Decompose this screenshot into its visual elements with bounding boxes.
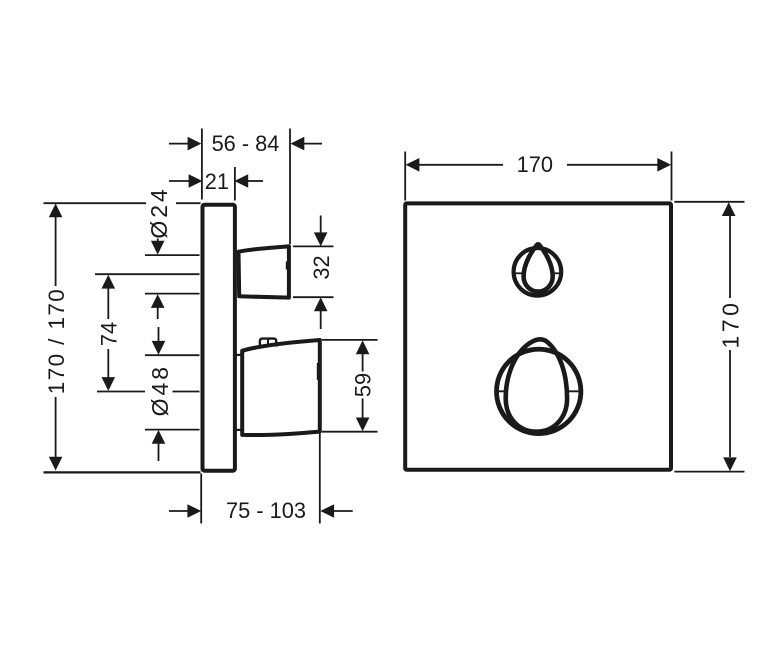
front view upper knob left mid tick	[515, 272, 524, 274]
extension line 75-103 right	[319, 434, 321, 524]
dimension 32 top stem	[320, 216, 322, 234]
front view lower knob egg grip	[506, 339, 567, 431]
arrow 59 up	[356, 340, 370, 354]
dimension 170 right top stem	[729, 216, 731, 298]
svg-text:75 - 103: 75 - 103	[226, 498, 306, 523]
extension line 170 top left	[404, 152, 406, 201]
lower handle stub bottom line	[237, 429, 243, 431]
svg-text:170: 170	[517, 152, 553, 177]
extension line diam24 top	[145, 254, 200, 256]
front view lower knob outer circle	[497, 349, 581, 433]
svg-text:32: 32	[309, 255, 334, 279]
dimension 56-84 right stem	[304, 143, 322, 145]
dimension 170 right bottom stem	[729, 350, 731, 457]
front view upper knob right mid tick	[553, 272, 561, 274]
dimension 170/170 top stem	[55, 217, 57, 286]
safety button divider	[267, 339, 269, 347]
dimension diam48 top stem	[158, 327, 160, 342]
upper handle front inner line	[286, 262, 288, 270]
front view upper knob egg grip	[524, 244, 553, 291]
extension line upper handle centerline	[95, 273, 200, 275]
arrow diam24 down	[151, 241, 165, 255]
arrow 32 up	[314, 297, 328, 311]
arrow 170 top left	[406, 158, 420, 172]
extension line bottom-left horizontal	[44, 471, 201, 473]
arrow 75-103 left	[187, 504, 201, 518]
arrow 74 down	[102, 377, 116, 391]
arrow 170/170 down	[49, 457, 63, 471]
svg-text:170 / 170: 170 / 170	[44, 288, 69, 394]
lower handle stub top line	[237, 354, 243, 356]
upper handle (side view)	[239, 246, 289, 297]
arrow 75-103 right	[320, 504, 334, 518]
extension line 75-103 left	[200, 474, 202, 524]
extension line 170 right top	[674, 201, 744, 203]
arrow 21 right	[234, 174, 248, 188]
extension line 56-84 left	[201, 129, 203, 200]
extension line 32 bottom	[293, 296, 334, 298]
svg-text:74: 74	[97, 322, 122, 346]
svg-text:21: 21	[205, 169, 229, 194]
extension line lower handle centerline	[97, 391, 145, 393]
arrow 59 down	[356, 418, 370, 432]
arrow diam48 down	[152, 341, 166, 355]
extension line diam48 top	[145, 354, 200, 356]
arrow 170 right up	[722, 202, 736, 216]
dimension diam24 bottom stem	[157, 307, 159, 319]
safety button tab	[260, 339, 276, 348]
svg-text:59: 59	[350, 373, 375, 397]
dimension 59 bottom stem	[362, 399, 364, 418]
extension line 59 bottom	[322, 431, 378, 433]
dimension 170/170 bottom stem	[55, 397, 57, 457]
extension line 56-84 right	[289, 129, 291, 245]
lower handle (side view)	[242, 340, 320, 435]
front view upper knob outer circle	[514, 248, 562, 296]
extension line top-left horizontal	[44, 202, 147, 204]
arrow 32 down	[314, 232, 328, 246]
arrow 74 up	[102, 275, 116, 289]
dimension 74 top stem	[107, 288, 109, 319]
arrow 21 left	[189, 174, 203, 188]
svg-text:170: 170	[717, 300, 743, 349]
dimension 74 bottom stem	[107, 349, 109, 378]
extension line 21 right	[234, 167, 236, 201]
arrow 56-84 left	[188, 137, 202, 151]
arrow 170 top right	[657, 158, 671, 172]
svg-text:Ø48: Ø48	[147, 364, 173, 416]
extension line 170 right bottom	[674, 471, 744, 473]
front view lower knob right mid tick	[568, 390, 583, 392]
lower handle front inner line	[317, 363, 319, 380]
dimension 32 bottom stem	[320, 311, 322, 329]
extension line 170 top right	[671, 152, 673, 201]
arrow 170 right down	[723, 457, 737, 471]
extension line diam48 bottom	[145, 429, 200, 431]
arrow 170/170 up	[49, 204, 63, 218]
extension line 32 top	[293, 245, 334, 247]
dimension 170 top right stem	[567, 164, 658, 166]
arrow 56-84 right	[291, 137, 305, 151]
dimension 75-103 right stem	[334, 510, 353, 512]
dimension 21 right stem	[248, 180, 263, 182]
dimension 170 top left stem	[419, 164, 503, 166]
wall plate (side view)	[203, 205, 235, 471]
dimension 75-103 left stem	[169, 510, 188, 512]
dimension diam48 bottom stem	[158, 444, 160, 462]
dimension 56-84 left stem	[169, 143, 188, 145]
front view lower knob left mid tick	[495, 390, 505, 392]
front view square plate	[405, 203, 671, 469]
dimension 21 left stem	[169, 180, 189, 182]
arrow diam24 up	[151, 294, 165, 308]
svg-text:Ø24: Ø24	[146, 186, 172, 238]
extension line diam24 bottom	[145, 293, 200, 295]
dimension 59 top stem	[362, 354, 364, 372]
extension line 59 top	[322, 339, 378, 341]
svg-text:56 - 84: 56 - 84	[212, 131, 280, 156]
arrow diam48 up	[152, 430, 166, 444]
dimension diam24 top stem	[157, 239, 159, 243]
